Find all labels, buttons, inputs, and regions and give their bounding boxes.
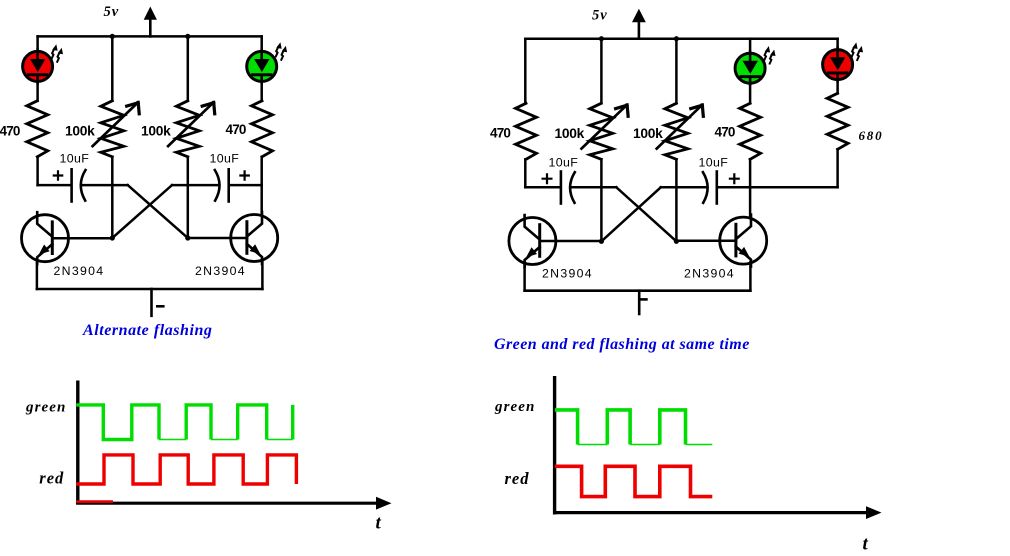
svg-text:10uF: 10uF	[60, 152, 90, 166]
svg-text:2N3904: 2N3904	[684, 267, 735, 281]
svg-text:10uF: 10uF	[210, 152, 240, 166]
svg-text:470: 470	[0, 124, 20, 139]
svg-text:470: 470	[226, 122, 246, 137]
svg-text:Green and red flashing at same: Green and red flashing at same time	[494, 336, 750, 353]
svg-text:red: red	[39, 468, 64, 487]
svg-text:100k: 100k	[65, 124, 95, 139]
svg-text:10uF: 10uF	[549, 156, 579, 170]
svg-text:t: t	[376, 512, 382, 533]
svg-text:100k: 100k	[633, 126, 663, 141]
svg-text:470: 470	[490, 126, 510, 141]
svg-text:5v: 5v	[104, 4, 120, 20]
svg-text:10uF: 10uF	[699, 156, 729, 170]
svg-text:5v: 5v	[592, 8, 608, 24]
svg-text:green: green	[494, 399, 536, 415]
svg-text:2N3904: 2N3904	[542, 267, 593, 281]
svg-text:2N3904: 2N3904	[195, 264, 246, 278]
svg-text:100k: 100k	[141, 124, 171, 139]
svg-text:2N3904: 2N3904	[54, 264, 105, 278]
svg-text:green: green	[25, 400, 67, 416]
svg-text:680: 680	[859, 128, 884, 143]
svg-text:red: red	[505, 469, 530, 488]
svg-text:t: t	[863, 533, 869, 554]
svg-text:470: 470	[715, 125, 735, 140]
svg-text:Alternate flashing: Alternate flashing	[82, 322, 212, 339]
svg-text:100k: 100k	[555, 126, 585, 141]
